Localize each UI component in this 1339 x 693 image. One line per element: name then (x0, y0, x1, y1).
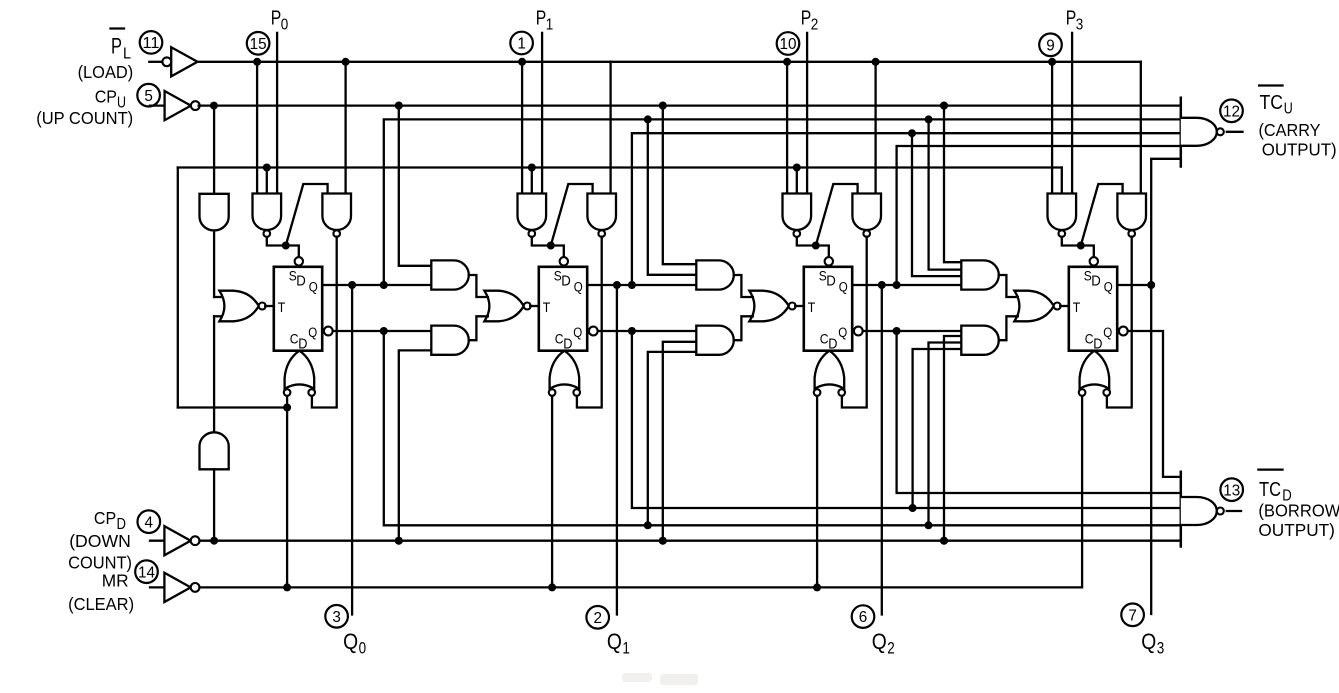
svg-text:OUTPUT): OUTPUT) (1262, 140, 1337, 160)
wire Q2-bar drop to down-chain (897, 331, 1181, 493)
AND gate up-count chain gap 1 (696, 260, 734, 289)
svg-text:OUTPUT): OUTPUT) (1258, 520, 1335, 540)
NOR gate T driver stage 1 (484, 291, 523, 322)
svg-text:(UP COUNT): (UP COUNT) (36, 108, 133, 128)
wire up-chain tap x=663 gap 1 (663, 106, 697, 265)
flip-flop FF0 (274, 267, 322, 351)
wire diagonal S0 to load-clear NAND (286, 184, 328, 246)
wire down-chain tap x=913 gap 2 (913, 349, 962, 508)
wire up-chain tap x=944 gap 2 (944, 106, 961, 263)
OR gate CD driver stage 1 (550, 351, 580, 389)
svg-text:CP: CP (94, 508, 116, 528)
inverter/buffer U-PL (149, 61, 162, 63)
svg-text:D: D (826, 273, 836, 290)
svg-text:12: 12 (1223, 103, 1240, 120)
svg-text:7: 7 (1128, 607, 1137, 624)
svg-text:(CARRY: (CARRY (1259, 120, 1321, 140)
svg-text:2: 2 (811, 17, 819, 34)
wire down-chain tap x=928 gap 2 (929, 343, 962, 526)
svg-text:13: 13 (1223, 482, 1240, 499)
svg-text:T: T (808, 299, 816, 315)
wire MR-bar riser stage 2 (796, 168, 798, 194)
svg-text:C: C (555, 331, 564, 347)
wire R2 output to CD gate (842, 237, 867, 408)
wire Q1-bar output line (598, 330, 697, 332)
NAND gate load-set S2 (783, 194, 812, 230)
NOR gate T driver stage 3 (1014, 291, 1053, 322)
svg-text:11: 11 (143, 35, 160, 52)
svg-text:D: D (1093, 337, 1102, 353)
flip-flop FF3 (1069, 267, 1117, 351)
svg-text:L: L (123, 46, 131, 63)
wire MR riser to CD gate stage 1 (551, 396, 553, 587)
NAND gate load-set S1 (518, 194, 547, 230)
svg-text:T: T (543, 299, 551, 315)
wire MR-bar riser stage 0 (266, 168, 268, 194)
svg-text:Q: Q (839, 280, 848, 295)
wire Q0 drop to output pin (351, 285, 353, 615)
wire Q1-bar drop to down-chain (632, 331, 1181, 508)
svg-text:2: 2 (887, 639, 895, 658)
NAND gate load-clear R0 (322, 194, 351, 231)
output label Q2 pin 6 (852, 605, 875, 628)
wire Q0-bar drop to down-chain (384, 331, 1181, 525)
flip-flop FF2 (804, 267, 852, 351)
svg-text:COUNT): COUNT) (68, 552, 132, 572)
svg-text:Q: Q (573, 325, 582, 340)
svg-text:Q: Q (838, 325, 847, 340)
wire down-chain tap x=944 gap 2 (944, 336, 961, 541)
AND gate down-count chain gap 0 (431, 326, 468, 355)
wire diagonal S2 to load-clear NAND (816, 184, 858, 246)
svg-text:D: D (563, 337, 572, 353)
FF3 Q-bar output bubble (1119, 327, 1128, 336)
NAND gate load-clear R2 (852, 194, 881, 231)
svg-text:Q: Q (1141, 629, 1156, 654)
svg-text:P: P (801, 8, 812, 30)
wire to SD bubble FF1 (551, 246, 564, 258)
wire up-chain tap x=929 gap 2 (929, 119, 962, 269)
output label Q1 pin 2 (586, 606, 609, 629)
wire diagonal S3 to load-clear NAND (1081, 184, 1123, 246)
svg-text:1: 1 (546, 17, 554, 34)
wire PL riser stage 3 left (1051, 62, 1053, 194)
svg-text:D: D (296, 273, 306, 290)
svg-text:(LOAD): (LOAD) (78, 62, 134, 82)
wire P1 input line (541, 33, 543, 194)
wire P2 input line (806, 33, 808, 194)
input label PL (LOAD) pin 11 (111, 27, 125, 29)
wire diagonal S1 to load-clear NAND (551, 184, 593, 246)
wire Q1 riser to up-chain (632, 133, 1181, 285)
svg-text:3: 3 (332, 609, 341, 626)
wire Q0 output line (322, 284, 431, 286)
wire CPD to A2 input (213, 469, 215, 540)
wire to SD bubble FF2 (816, 246, 829, 258)
wire to SD bubble FF3 (1081, 246, 1094, 258)
AND gate A1 (up-count enable) (200, 194, 229, 231)
wire R3 output to CD gate (1107, 237, 1132, 408)
wire S2 NAND output elbow (797, 237, 816, 246)
svg-text:(DOWN: (DOWN (69, 531, 131, 551)
wire MR-bar rail (178, 166, 1062, 168)
svg-text:Q: Q (309, 280, 318, 295)
svg-text:Q: Q (308, 325, 317, 340)
wire to SD bubble FF0 (286, 246, 299, 258)
wire CPU rail (199, 104, 1181, 106)
svg-text:P: P (271, 8, 282, 30)
wire S0 NAND output elbow (267, 237, 286, 246)
svg-text:1: 1 (622, 639, 630, 658)
wire down-chain tap x=399 gap 0 (399, 350, 432, 540)
NAND gate TCU (carry) (1180, 98, 1183, 167)
wire S3 NAND output elbow (1062, 237, 1081, 246)
wire PL riser stage 2 right (874, 62, 876, 194)
AND gate down-count chain gap 1 (696, 326, 733, 355)
label TCD (BORROW OUTPUT) (1258, 468, 1282, 470)
wire MR-bar riser stage 1 (531, 168, 533, 194)
wire CPU to AND1 input (213, 106, 215, 194)
OR gate CD driver stage 0 (285, 351, 315, 389)
wire PL riser stage 1 left (521, 62, 523, 194)
svg-text:15: 15 (250, 36, 267, 53)
NAND gate load-clear R1 (587, 194, 616, 231)
svg-text:D: D (828, 337, 837, 353)
FF1 Q-bar output bubble (589, 327, 598, 336)
svg-text:Q: Q (607, 629, 622, 654)
wire Q2 drop to output pin (881, 285, 883, 615)
svg-text:0: 0 (281, 17, 289, 34)
svg-text:10: 10 (780, 36, 797, 53)
wire A1 output to NOR1 input (213, 231, 215, 298)
OR gate CD driver stage 2 (815, 351, 845, 389)
NAND gate load-set S3 (1048, 194, 1077, 231)
svg-text:3: 3 (1076, 17, 1084, 34)
svg-text:MR: MR (102, 570, 129, 590)
wire AND outputs to NOR stage 3 (999, 275, 1018, 297)
wire up-chain tap x=912 gap 2 (912, 133, 961, 276)
wire MR-bar loop stage 0 (177, 168, 179, 408)
wire PL riser stage 0 right (344, 62, 346, 194)
OR gate CD driver stage 3 (1080, 351, 1110, 389)
wire PL riser stage 1 right (609, 62, 611, 194)
wire PL riser stage 0 left (256, 62, 258, 194)
inverter U-CPU (150, 104, 165, 106)
AND gate down-count chain gap 2 (961, 326, 998, 355)
wire P0 input line (276, 33, 278, 194)
wire AND outputs to NOR stage 1 (469, 275, 488, 297)
svg-text:5: 5 (144, 88, 153, 105)
AND gate up-count chain gap 2 (961, 260, 999, 289)
NOR gate T driver stage 0 (219, 291, 258, 322)
wire Q3 riser to TCU (1151, 159, 1181, 285)
wire Q1 drop to output pin (616, 285, 618, 615)
svg-text:T: T (278, 299, 286, 315)
svg-text:Q: Q (1103, 325, 1112, 340)
NAND gate TCD (borrow) (1180, 472, 1183, 547)
faint erased caption remnant (622, 673, 698, 685)
svg-text:P: P (1066, 8, 1077, 30)
wire Q3 drop to output pin (1150, 285, 1152, 614)
wire down-chain tap x=663 gap 1 (663, 342, 697, 541)
FF0 Q-bar output bubble (324, 327, 333, 336)
svg-text:(CLEAR): (CLEAR) (68, 594, 134, 614)
wire Q2 riser to up-chain (897, 146, 1181, 285)
svg-text:D: D (298, 337, 307, 353)
svg-text:0: 0 (359, 639, 367, 658)
wire Q2-bar output line (863, 330, 962, 332)
NAND gate load-set S0 (253, 194, 282, 231)
AND gate A2 (down-count enable) (200, 432, 229, 469)
wire PL riser stage 2 left (786, 62, 788, 194)
svg-text:D: D (1091, 273, 1101, 290)
svg-text:TC: TC (1260, 92, 1284, 114)
FF2 Q-bar output bubble (854, 327, 863, 336)
svg-text:C: C (820, 331, 829, 347)
svg-text:C: C (1085, 331, 1094, 347)
wire P3 input line (1071, 33, 1073, 194)
svg-text:1: 1 (517, 36, 526, 53)
wire MR riser to CD gate stage 2 (816, 396, 818, 587)
svg-text:4: 4 (145, 514, 154, 531)
wire R0 output to CD gate (312, 237, 337, 408)
output label Q3 pin 7 (1121, 604, 1144, 627)
wire MR riser to CD gate stage 0 (286, 396, 288, 587)
wire up-chain tap x=648 gap 1 (648, 119, 697, 274)
wire Q3-bar to TCD (1128, 331, 1181, 477)
wire MR riser to CD gate stage 3 (1081, 396, 1083, 587)
svg-text:U: U (1284, 101, 1293, 118)
wire Q2 output line (852, 284, 961, 286)
output label Q0 pin 3 (325, 605, 348, 628)
wire A2 output to NOR1 input (213, 316, 215, 432)
label TCU (CARRY OUTPUT) (1259, 84, 1282, 86)
wire S1 NAND output elbow (532, 237, 551, 246)
svg-text:Q: Q (1104, 280, 1113, 295)
svg-text:(BORROW: (BORROW (1258, 501, 1339, 521)
wire CPD rail (200, 540, 1181, 542)
svg-text:9: 9 (1046, 37, 1055, 54)
svg-text:D: D (561, 273, 571, 290)
wire Q0-bar output line (333, 330, 432, 332)
wire R1 output to CD gate (577, 237, 602, 408)
wire Q0 riser to up-chain (384, 119, 1181, 285)
svg-text:3: 3 (1157, 639, 1165, 658)
svg-text:Q: Q (343, 629, 358, 654)
wire Q1 output line (587, 284, 696, 286)
inverter U-MR (150, 586, 164, 588)
svg-text:Q: Q (574, 280, 583, 295)
pin 12 circle (1220, 100, 1243, 123)
svg-text:2: 2 (593, 610, 602, 627)
svg-text:P: P (111, 34, 122, 59)
svg-text:T: T (1073, 299, 1081, 315)
svg-text:C: C (290, 331, 299, 347)
wire MR rail (200, 586, 1082, 588)
svg-text:6: 6 (859, 609, 868, 626)
svg-text:P: P (536, 8, 547, 30)
svg-text:TC: TC (1259, 479, 1281, 501)
wire PL rail (198, 61, 1141, 63)
wire Q3 output line (1117, 284, 1151, 286)
pin 13 circle (1220, 478, 1243, 501)
NOR gate T driver stage 2 (749, 291, 788, 322)
wire down-chain tap x=648 gap 1 (648, 352, 697, 525)
wire AND outputs to NOR stage 2 (734, 275, 753, 297)
inverter U-CPD (150, 540, 164, 542)
NAND gate load-clear R3 (1117, 194, 1146, 231)
svg-text:Q: Q (872, 629, 887, 654)
AND gate up-count chain gap 0 (431, 260, 469, 289)
wire up-chain tap x=399 gap 0 (399, 106, 432, 266)
svg-text:CP: CP (95, 86, 117, 106)
flip-flop FF1 (539, 267, 587, 351)
svg-text:14: 14 (138, 564, 155, 581)
